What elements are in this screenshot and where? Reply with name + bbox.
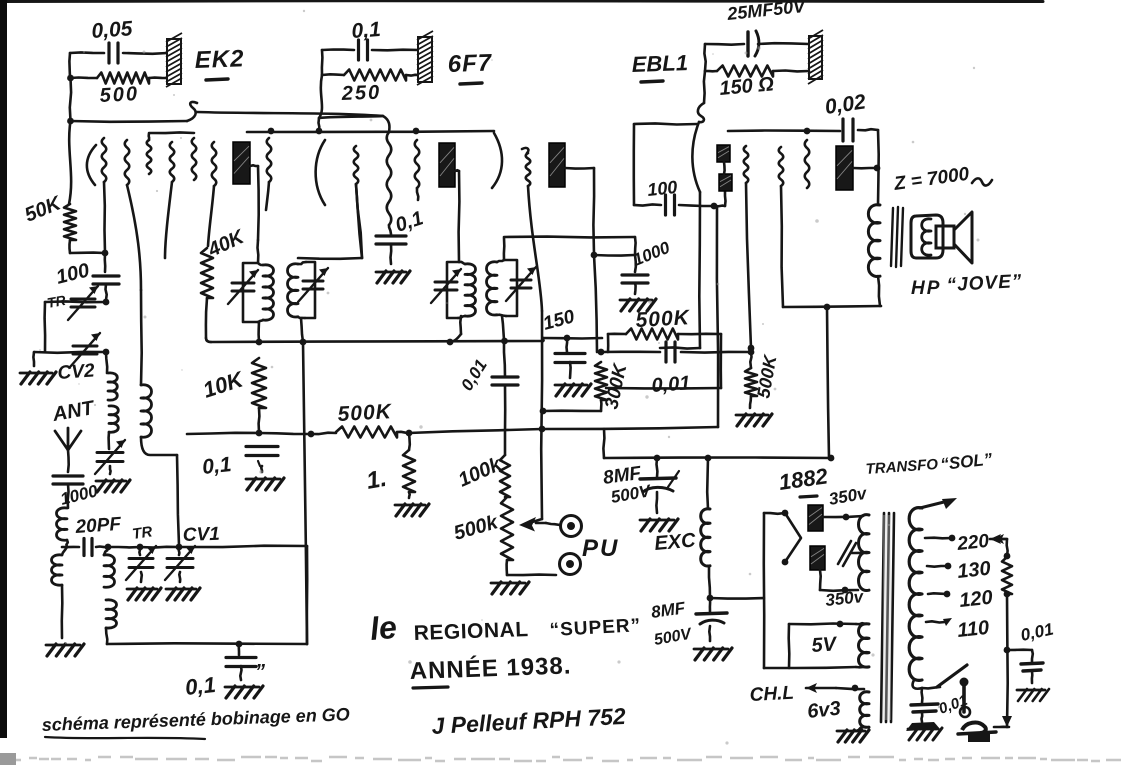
node det row right bbox=[748, 349, 755, 356]
svg-text:500: 500 bbox=[99, 83, 139, 107]
wire det box left bbox=[607, 334, 610, 352]
node IF2 sec bus bbox=[501, 338, 508, 345]
IF1 primary can bbox=[243, 263, 258, 322]
wire cv2 gnd bbox=[32, 352, 35, 366]
resistor 40K bbox=[201, 248, 213, 298]
wire plate1 to winding bbox=[823, 516, 863, 517]
capacitor 0,01 mains bbox=[1031, 650, 1034, 662]
node output right bbox=[874, 165, 881, 172]
svg-text:PU: PU bbox=[582, 535, 619, 562]
capacitor 0,01 diode bbox=[492, 375, 518, 378]
tube label EBL1 underline bbox=[641, 81, 663, 82]
ground 6v3 bbox=[837, 730, 865, 733]
capacitor 0,01 sw bbox=[920, 688, 923, 703]
node 6v3 bbox=[852, 685, 859, 692]
bus wire screen bbox=[211, 341, 543, 342]
node avc if1 bbox=[308, 431, 315, 438]
node IF1 sec bus bbox=[300, 339, 307, 346]
antenna symbol bbox=[55, 428, 81, 450]
title annee underline bbox=[413, 687, 448, 688]
tube EBL1 hook bbox=[698, 103, 704, 122]
node 001 right bbox=[1004, 647, 1011, 654]
node 6F7 g3 bbox=[413, 128, 420, 135]
node antenna coupling bbox=[102, 250, 109, 257]
wire osc rail bbox=[306, 546, 309, 644]
secondary winding bbox=[909, 508, 922, 681]
wire 100pf right bbox=[679, 205, 714, 206]
tap 110 wire bbox=[926, 621, 945, 622]
capacitor 0,1 osc bbox=[238, 644, 241, 655]
capacitor 20PF bbox=[82, 539, 85, 556]
node sel bottom bbox=[1004, 591, 1011, 598]
wire ant cap down bbox=[66, 484, 69, 508]
resistor 500 bbox=[70, 76, 97, 79]
capacitor 0,1 6F7 bbox=[357, 40, 360, 60]
secondary top arrow bbox=[920, 502, 944, 508]
switch contact pin bbox=[962, 684, 966, 712]
wire 8mf2 gnd bbox=[708, 626, 711, 641]
grid squiggle EK2 g5 bbox=[192, 138, 197, 180]
ground CV1 bbox=[178, 572, 181, 582]
trimmer padder bbox=[107, 432, 110, 449]
svg-text:HP: HP bbox=[911, 278, 941, 299]
capacitor 100 ant bbox=[104, 253, 107, 272]
tap 220 wire bbox=[925, 536, 952, 539]
resistor 250 bbox=[322, 73, 344, 76]
node osc bottom bbox=[236, 641, 243, 648]
node 10K avc bbox=[256, 430, 263, 437]
anode EBL1 plate lower bbox=[719, 174, 732, 191]
node CV1 bbox=[176, 544, 183, 551]
note underline bbox=[45, 737, 205, 739]
ground 8MF-2 bbox=[694, 648, 728, 651]
ground pot bbox=[491, 582, 525, 585]
osc coil left lower bbox=[62, 547, 67, 555]
grid squiggle 6F7 g2 long bbox=[383, 116, 389, 132]
wire 10K bottom bbox=[257, 408, 260, 432]
capacitor 0,05 bbox=[107, 43, 110, 63]
svg-text:20PF: 20PF bbox=[74, 514, 123, 538]
ground padder bbox=[109, 466, 112, 474]
node 150 cap bbox=[564, 335, 571, 342]
IF2 primary can bbox=[447, 262, 459, 318]
trimmer TR2 sym bbox=[138, 547, 141, 555]
jack PU bottom bbox=[560, 554, 581, 575]
tap 220 arrow bbox=[990, 538, 1006, 541]
wire EK2 top bbox=[70, 51, 104, 54]
wire avc cap gnd bbox=[260, 466, 263, 472]
rectifier filament bracket bbox=[764, 512, 785, 515]
svg-text:120: 120 bbox=[958, 587, 993, 612]
grid squiggle EBL1 g3 bbox=[805, 140, 810, 188]
resistor 100K bbox=[504, 386, 507, 455]
node 6F7 grid left bbox=[316, 128, 323, 135]
tap 130 wire bbox=[927, 565, 948, 568]
wire EK2 left side bbox=[68, 53, 71, 78]
wire 1meg gnd bbox=[408, 492, 411, 498]
potentiometer wiper arrow bbox=[529, 519, 542, 523]
svg-text:CV2: CV2 bbox=[57, 360, 96, 384]
wire EK2 cathode wavy bbox=[69, 121, 71, 204]
ground 1000 cap bbox=[620, 299, 652, 302]
wire exc bottom bbox=[709, 566, 710, 598]
wire avc to ebl1 grid bbox=[542, 427, 718, 429]
node det left bbox=[540, 408, 547, 415]
tube label EK2 underline bbox=[206, 79, 228, 80]
capacitor 100pf bbox=[664, 195, 667, 215]
wire secondary bottom bbox=[913, 680, 922, 689]
wire 6v3 gnd bbox=[856, 727, 864, 731]
output transformer primary bbox=[868, 205, 880, 277]
wire EBL1 grid top row bbox=[728, 129, 840, 132]
wire primary bottom bbox=[878, 276, 880, 306]
svg-text:le: le bbox=[368, 609, 398, 647]
wire EK2 grid bus bbox=[71, 120, 188, 123]
tube EK2 grid hook bbox=[187, 102, 197, 121]
node 5v bbox=[837, 621, 844, 628]
jack PU top bbox=[561, 516, 582, 537]
ground 500K grid bbox=[736, 414, 768, 417]
ground 150 cap bbox=[555, 384, 587, 387]
wire IF1 secondary top bbox=[298, 257, 362, 260]
node trimmer row2 bbox=[103, 349, 110, 356]
capacitor 8MF-1 bbox=[655, 458, 659, 477]
tube EK2 envelope arc bbox=[87, 145, 96, 185]
wire plate2 to winding bbox=[820, 589, 858, 592]
speaker coil bbox=[911, 215, 943, 258]
grid squiggle EBL1 g2 bbox=[779, 147, 784, 186]
wire coupling 6F7 bbox=[319, 116, 383, 118]
wire pot wiper to jack bbox=[546, 523, 560, 525]
svg-text:220: 220 bbox=[955, 531, 990, 555]
wire 6F7 left side bbox=[321, 50, 324, 75]
HT winding 350V bbox=[859, 515, 870, 591]
node triode plate line bbox=[591, 252, 598, 259]
scan speckles bbox=[370, 119, 373, 122]
wire CV1 to osc rail bbox=[179, 546, 307, 547]
IF2 secondary can bbox=[504, 260, 517, 316]
node IF1 primary bus bbox=[256, 339, 263, 346]
wire trimmer left col bbox=[43, 302, 46, 352]
wire IF2 primary bottom bbox=[459, 316, 462, 334]
grid squiggle EBL1 g1 bbox=[744, 146, 749, 183]
trimmer CV2 bbox=[73, 345, 97, 348]
wire switch to line bbox=[994, 725, 1009, 728]
wire IF1 primary bottom bbox=[257, 322, 260, 342]
wire osc bottom rail bbox=[107, 642, 307, 645]
svg-text:TR: TR bbox=[131, 523, 153, 543]
wire trimmer row1 bbox=[45, 300, 106, 303]
transformer core lines bbox=[881, 513, 884, 722]
node TR2 bbox=[137, 544, 144, 551]
wire IF2 secondary bottom bbox=[502, 316, 504, 340]
wire EBL1 top right bbox=[758, 42, 809, 45]
wire between plates bbox=[723, 162, 726, 174]
grid squiggle EK2 g7 bbox=[267, 138, 272, 182]
wire 0,02 right bbox=[858, 129, 878, 130]
wire 40K to bus bbox=[206, 298, 207, 338]
node EBL1 top grid bbox=[804, 128, 811, 135]
svg-text:500K: 500K bbox=[337, 400, 393, 426]
output transformer core bbox=[891, 208, 893, 266]
wire 100pf row bbox=[634, 123, 697, 124]
speaker horn bbox=[954, 212, 972, 263]
wire 1000cap ground bbox=[634, 283, 637, 294]
ground switch cap bbox=[906, 722, 940, 731]
node speaker loop bbox=[824, 304, 831, 311]
tap 120 wire bbox=[928, 592, 947, 595]
svg-text:REGIONAL: REGIONAL bbox=[413, 618, 529, 645]
wire 5v rail bbox=[787, 624, 790, 668]
border top edge bbox=[0, 0, 1043, 3]
resistor 50K bbox=[64, 204, 76, 240]
wire grid bus 6F7 bbox=[247, 131, 494, 132]
svg-text:110: 110 bbox=[956, 617, 990, 642]
wire avc cont bbox=[397, 432, 409, 433]
anode EBL1 plate upper bbox=[717, 145, 730, 162]
svg-text:CV1: CV1 bbox=[182, 524, 220, 546]
wire trimmer TR2 bbox=[108, 546, 140, 549]
resistor 10K bbox=[252, 358, 266, 408]
rectifier rail bbox=[762, 513, 765, 668]
grid squiggle 6F7 g3 bbox=[415, 140, 420, 188]
wire 001 right bbox=[1007, 648, 1032, 651]
B+ bus wire bbox=[604, 456, 832, 459]
resistor line filter bbox=[1002, 557, 1012, 594]
svg-text:0,01: 0,01 bbox=[651, 372, 691, 397]
line HT select bbox=[1005, 539, 1008, 557]
filament winding 6v3 bbox=[860, 692, 869, 727]
node HT bottom bbox=[842, 587, 849, 594]
speaker driver bbox=[936, 226, 954, 248]
ground 1meg bbox=[395, 504, 425, 507]
wire det row bbox=[601, 350, 660, 353]
wire pot bottom bbox=[505, 560, 508, 575]
wire 6F7 left column bbox=[319, 75, 322, 118]
ground 6F7 cathode bbox=[376, 271, 406, 274]
tube 6F7 envelope arc left bbox=[316, 140, 325, 205]
anode 6F7 pentode plate bbox=[439, 143, 455, 187]
switch base scribble bbox=[962, 723, 986, 733]
wire triode plate down bbox=[594, 255, 597, 352]
wire AVC line bbox=[187, 433, 259, 434]
wire 300K bottom bbox=[600, 400, 603, 411]
node exc cap bbox=[707, 595, 714, 602]
wire cap to ground 6F7 bbox=[389, 244, 392, 264]
wire CV1 row bbox=[140, 545, 179, 548]
anode bar EBL1 bbox=[809, 36, 822, 79]
grid squiggle EK2 g6 bbox=[212, 142, 217, 186]
anode output plate bbox=[836, 146, 853, 190]
primary 5V winding bbox=[859, 624, 870, 667]
oscillator coupling coil bbox=[140, 290, 143, 385]
svg-text:”: ” bbox=[255, 661, 265, 683]
trimmer CV1 sym bbox=[177, 547, 180, 555]
node plate1 bbox=[843, 514, 850, 521]
svg-text:6F7: 6F7 bbox=[447, 49, 493, 78]
anode 1882 plate 1 bbox=[808, 505, 823, 531]
wire 6F7 top bbox=[322, 48, 354, 51]
resistor 1meg bbox=[408, 433, 411, 450]
osc coil right bbox=[104, 547, 108, 555]
node bus exc bbox=[705, 455, 712, 462]
node ebl1 grid bbox=[711, 203, 718, 210]
wire IF1 secondary bottom bbox=[301, 318, 303, 342]
IF1 secondary can bbox=[305, 262, 315, 318]
wire loop to bus bbox=[827, 307, 829, 458]
wire speaker loop bottom bbox=[783, 306, 881, 307]
wire 8mf gnd bbox=[655, 492, 658, 513]
tube 6F7 envelope arc right bbox=[492, 133, 502, 188]
svg-text:0,1: 0,1 bbox=[184, 672, 217, 700]
capacitor 25MF electrolytic bbox=[746, 32, 749, 56]
svg-text:ANNÉE 1938.: ANNÉE 1938. bbox=[409, 651, 572, 685]
resistor 500K avc bbox=[336, 427, 397, 438]
grid squiggle 6F7 triode bbox=[522, 148, 528, 153]
wire 20pf to node bbox=[96, 545, 108, 548]
border left bar bbox=[0, 0, 7, 738]
capacitor 0,1 avc bbox=[246, 445, 278, 448]
grid squiggle EK2 g3 bbox=[147, 140, 152, 174]
ground CV2 bbox=[20, 372, 52, 375]
anode bar EK2 top bbox=[167, 39, 181, 84]
node bus 8mf bbox=[654, 455, 661, 462]
scan artifact bottom band bbox=[0, 757, 1121, 761]
wire det right down bbox=[750, 352, 751, 368]
resistor 500K det top bbox=[608, 332, 626, 335]
svg-text:EXC: EXC bbox=[654, 529, 697, 555]
capacitor 0,1 cathode 6F7 bbox=[376, 234, 406, 237]
wire bottom rail bbox=[764, 667, 856, 668]
grid squiggle EK2 g1 bbox=[102, 138, 107, 182]
ground TR2 bbox=[140, 572, 143, 582]
wire 6F7 plate to IF2 bbox=[455, 169, 459, 172]
capacitor 150 bbox=[565, 338, 568, 352]
wire osc coil to cv1 bbox=[141, 437, 177, 455]
svg-text:6v3: 6v3 bbox=[806, 698, 841, 723]
svg-text:“JOVE”: “JOVE” bbox=[946, 271, 1023, 296]
svg-text:CH.L: CH.L bbox=[749, 683, 794, 706]
ground avc cap bbox=[246, 478, 280, 481]
tube label 1882 underline bbox=[800, 496, 817, 497]
svg-text:130: 130 bbox=[956, 558, 991, 583]
IF1 primary trimmer bbox=[232, 282, 254, 285]
wire plate to 1000cap bbox=[594, 254, 634, 257]
node EK2 left bbox=[67, 75, 74, 82]
wire to 1882 rail bbox=[710, 597, 764, 600]
HT center hatch bbox=[838, 541, 856, 566]
anode bar 6F7 top bbox=[418, 37, 432, 82]
svg-text:0,1: 0,1 bbox=[201, 453, 232, 479]
resistor 150ohm bbox=[705, 70, 717, 73]
svg-text:500K: 500K bbox=[635, 306, 691, 332]
ground 8MF-1 bbox=[640, 519, 674, 522]
wire IF2 secondary top bbox=[503, 238, 506, 260]
wire EK2 left column bbox=[70, 78, 71, 121]
node sel top bbox=[1004, 553, 1011, 560]
wire EBL1 grid row bbox=[504, 235, 635, 238]
anode 6F7 triode plate bbox=[549, 143, 565, 187]
inductor EXC bbox=[706, 458, 709, 509]
tube label 6F7 underline bbox=[460, 83, 482, 84]
wire 50K to node bbox=[68, 240, 71, 253]
wire chl arrow bbox=[806, 687, 836, 690]
wire 5v top bbox=[789, 622, 856, 625]
wire 500K grid gnd bbox=[750, 396, 751, 408]
wire det box right bbox=[719, 334, 722, 388]
wire EBL1 left column bbox=[704, 44, 705, 71]
node bus speaker bbox=[828, 455, 835, 462]
wire ant coil node bbox=[66, 540, 67, 547]
tube EBL1 envelope arc bbox=[692, 122, 700, 192]
svg-text:0,05: 0,05 bbox=[91, 17, 134, 43]
wire output plate bbox=[853, 167, 877, 170]
IF2 primary trimmer bbox=[435, 281, 457, 284]
wire bus left up bbox=[603, 429, 604, 458]
wire cathode row bbox=[660, 347, 700, 348]
svg-text:250: 250 bbox=[340, 82, 381, 105]
node avc 1meg bbox=[406, 430, 413, 437]
ground ant coil bbox=[46, 644, 80, 647]
node trimmer row1 bbox=[103, 299, 110, 306]
antenna coil top bbox=[106, 352, 107, 373]
node IF2 primary bus bbox=[447, 339, 454, 346]
ground mains cap bbox=[1017, 689, 1045, 692]
svg-text:5V: 5V bbox=[811, 633, 839, 657]
ground osc cap bbox=[225, 686, 259, 689]
anode EK2 plate bbox=[233, 142, 250, 184]
node avc pu line bbox=[539, 426, 546, 433]
grid squiggle EK2 g4 bbox=[170, 142, 175, 182]
node EBL1 cath bbox=[748, 345, 755, 352]
antenna coil lower bbox=[57, 508, 68, 540]
grid squiggle 6F7 g1 bbox=[354, 146, 359, 184]
capacitor 1000 ant bbox=[53, 474, 83, 477]
trimmer TR1 bbox=[71, 298, 95, 301]
svg-text:EBL1: EBL1 bbox=[631, 50, 688, 77]
capacitor 0,01 det bbox=[664, 342, 667, 362]
node EK2 grid bus bbox=[67, 118, 74, 125]
wire sel arrow bbox=[993, 538, 1007, 541]
capacitor 8MF-2 bbox=[709, 598, 712, 612]
potentiometer 500K bbox=[501, 497, 513, 560]
IF2 secondary trimmer bbox=[511, 279, 531, 282]
capacitor 0,02 bbox=[841, 119, 844, 141]
node 300K top bbox=[598, 349, 605, 356]
wire EK2 plate to IF1 bbox=[250, 164, 258, 167]
switch lever bbox=[937, 665, 967, 687]
resistor 500K grid bbox=[745, 368, 757, 396]
node osc grid bbox=[105, 544, 112, 551]
wire EBL1 top bbox=[705, 43, 744, 46]
anode 1882 plate 2 bbox=[810, 546, 825, 570]
IF1 secondary trimmer bbox=[303, 280, 323, 283]
grid squiggle EK2 g2 bbox=[125, 140, 130, 185]
wire trimmer row2 bbox=[34, 351, 106, 354]
node EK2 right grid bbox=[268, 128, 275, 135]
wire screen line top bbox=[197, 112, 383, 116]
svg-text:EK2: EK2 bbox=[194, 45, 245, 74]
capacitor 1000 coupling bbox=[622, 273, 648, 276]
wire triode plate right bbox=[565, 167, 594, 170]
resistor 300K bbox=[595, 362, 607, 400]
